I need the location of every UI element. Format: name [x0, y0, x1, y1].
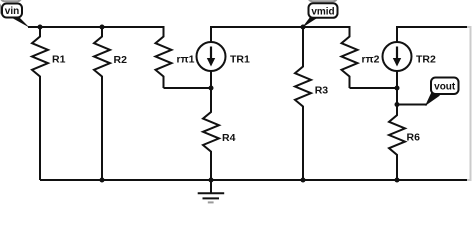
node gnd at R6	[395, 178, 400, 183]
current source TR1	[197, 42, 226, 71]
wire rpi2 to TR2 bottom	[350, 87, 398, 89]
node vin at R1	[38, 25, 43, 30]
svg-text:vout: vout	[434, 81, 456, 92]
svg-text:R2: R2	[114, 54, 128, 66]
ghost callout above vmid	[308, 0, 338, 1]
node vmid	[301, 25, 306, 30]
callout vout	[431, 78, 459, 95]
ground	[210, 180, 212, 193]
current source TR2 arrow	[393, 47, 401, 67]
svg-text:R1: R1	[52, 54, 66, 66]
ghost callout above vin	[1, 0, 22, 1]
svg-text:R4: R4	[222, 132, 236, 144]
wire vout tap	[397, 104, 427, 106]
callout vin tail	[10, 17, 30, 28]
wire right edge grey	[467, 27, 471, 180]
svg-text:R3: R3	[315, 85, 329, 97]
resistor rpi1	[156, 27, 172, 88]
callout vmid	[309, 3, 338, 17]
callout vin	[2, 4, 22, 18]
wire top rail vin	[28, 26, 165, 28]
wire rpi1 to TR1 bottom	[164, 87, 212, 89]
resistor R2	[94, 27, 110, 180]
resistor R1	[32, 27, 48, 180]
resistor R3	[295, 27, 311, 180]
svg-text:TR1: TR1	[230, 53, 250, 65]
resistor R4	[203, 88, 219, 180]
resistor R6	[389, 105, 405, 181]
ghost callout left of vin	[0, 3, 1, 16]
svg-text:R6: R6	[407, 131, 421, 143]
callout vmid tail	[302, 17, 320, 28]
current source TR2	[383, 42, 412, 71]
resistor rpi2	[342, 27, 358, 88]
node TR2 bottom	[395, 86, 400, 91]
current source TR1 arrow	[207, 47, 215, 67]
svg-text:vmid: vmid	[311, 6, 334, 17]
wire bottom rail ground	[40, 179, 467, 181]
svg-text:rπ1: rπ1	[177, 54, 195, 66]
svg-text:vin: vin	[5, 6, 19, 17]
node gnd at R4	[209, 178, 214, 183]
wire top rail vmid	[211, 27, 351, 42]
node vout	[395, 102, 400, 107]
callout vout tail	[425, 91, 440, 106]
node TR1 bottom	[209, 86, 214, 91]
node gnd at R2	[100, 178, 105, 183]
node gnd at R3	[301, 178, 306, 183]
svg-text:rπ2: rπ2	[362, 54, 380, 66]
wire top rail TR2-right	[397, 27, 468, 42]
node vin at R2	[100, 25, 105, 30]
svg-text:TR2: TR2	[416, 53, 436, 65]
